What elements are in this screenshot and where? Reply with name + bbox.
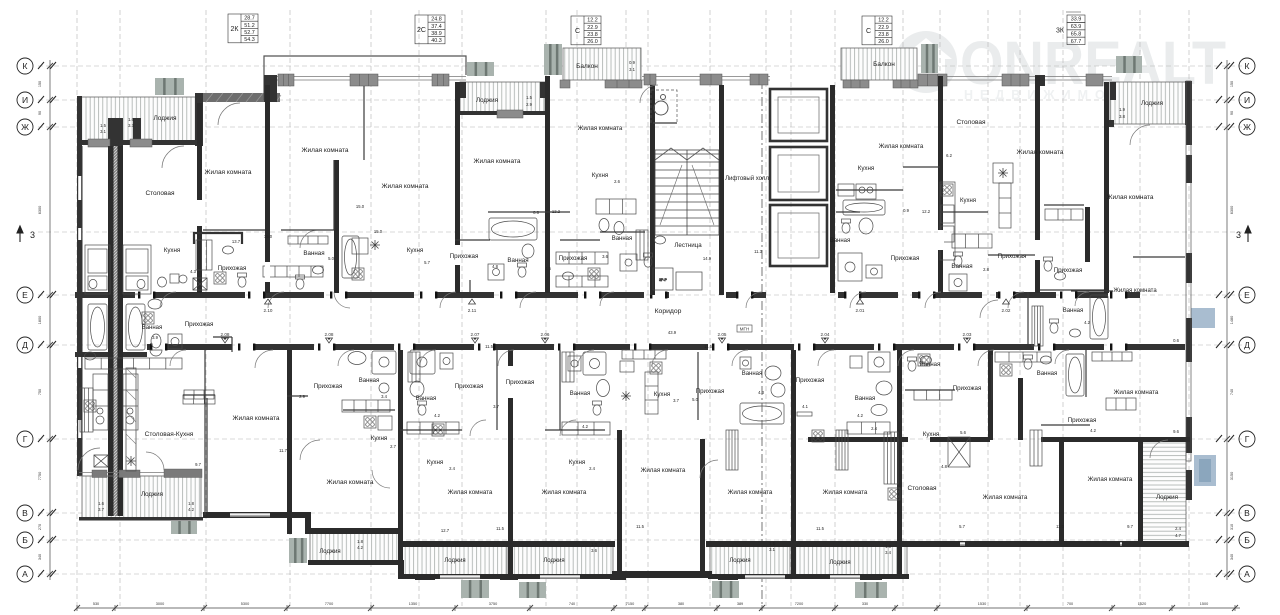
area table 2C	[415, 15, 445, 44]
svg-text:63.9: 63.9	[1071, 24, 1082, 30]
svg-text:Прихожая: Прихожая	[796, 377, 825, 384]
svg-text:0.9: 0.9	[629, 60, 635, 65]
svg-text:Д: Д	[1244, 340, 1250, 350]
svg-text:Лоджия: Лоджия	[476, 97, 498, 104]
loggia D hatch strips	[710, 545, 790, 576]
svg-text:9.7: 9.7	[195, 462, 201, 467]
svg-text:Жилая комната: Жилая комната	[983, 494, 1028, 501]
section line	[761, 80, 763, 610]
svg-text:1.9: 1.9	[1119, 107, 1125, 112]
svg-text:3.7: 3.7	[493, 404, 499, 409]
loggia B hatch	[460, 82, 545, 114]
svg-text:С: С	[866, 28, 871, 35]
svg-text:150: 150	[1230, 81, 1234, 87]
svg-text:15.0: 15.0	[264, 234, 273, 239]
loggia top-left hatch	[79, 97, 197, 144]
svg-text:Ж: Ж	[21, 122, 29, 132]
svg-text:Жилая комната: Жилая комната	[879, 143, 924, 150]
svg-text:9.6: 9.6	[1173, 429, 1179, 434]
svg-text:3.8: 3.8	[1119, 114, 1125, 119]
svg-text:1.5: 1.5	[769, 541, 775, 546]
svg-text:Прихожая: Прихожая	[450, 253, 479, 260]
watermark logo	[895, 29, 1226, 102]
svg-text:2.06: 2.06	[541, 332, 550, 337]
svg-text:Жилая комната: Жилая комната	[474, 158, 521, 165]
svg-text:5.7: 5.7	[424, 260, 430, 265]
svg-text:Кухня: Кухня	[923, 431, 940, 438]
svg-text:Жилая комната: Жилая комната	[578, 125, 623, 132]
svg-text:9.7: 9.7	[1127, 524, 1133, 529]
svg-text:3: 3	[1236, 230, 1241, 240]
svg-text:Жилая комната: Жилая комната	[641, 467, 686, 474]
svg-text:Ванная: Ванная	[416, 396, 437, 402]
svg-text:12.2: 12.2	[552, 209, 561, 214]
svg-text:4.5: 4.5	[545, 266, 551, 271]
svg-text:2.04: 2.04	[821, 332, 830, 337]
svg-text:310: 310	[1230, 524, 1234, 530]
svg-text:12.2: 12.2	[587, 18, 598, 24]
svg-text:Кухня: Кухня	[960, 198, 976, 204]
svg-text:1800: 1800	[38, 316, 42, 324]
svg-text:Столовая: Столовая	[956, 119, 986, 126]
svg-text:Балкон: Балкон	[576, 63, 598, 70]
svg-text:Ванная: Ванная	[612, 236, 633, 242]
svg-text:270: 270	[38, 524, 42, 530]
svg-text:А: А	[22, 569, 28, 579]
svg-text:340: 340	[38, 554, 42, 560]
svg-text:2.4: 2.4	[449, 466, 455, 471]
svg-text:Ванная: Ванная	[830, 238, 851, 244]
svg-text:Столовая: Столовая	[907, 485, 937, 492]
svg-text:Лоджия: Лоджия	[1156, 494, 1178, 501]
svg-text:3.4: 3.4	[885, 550, 891, 555]
area table C2	[862, 16, 892, 45]
svg-text:28.7: 28.7	[244, 16, 255, 22]
svg-text:2.9: 2.9	[299, 394, 305, 399]
svg-text:А: А	[1244, 569, 1250, 579]
area table 2K	[228, 14, 258, 43]
svg-text:Лоджия: Лоджия	[153, 115, 177, 122]
svg-text:Ванная: Ванная	[359, 378, 380, 384]
svg-text:Лестница: Лестница	[674, 242, 702, 249]
walls main	[75, 292, 1185, 357]
svg-text:Жилая комната: Жилая комната	[205, 169, 252, 176]
loggia bottom-left hatch	[82, 476, 201, 518]
loggia bottom-right hatch	[1142, 438, 1186, 543]
svg-text:2.01: 2.01	[856, 308, 865, 313]
svg-text:23.8: 23.8	[587, 32, 598, 38]
svg-text:Ванная: Ванная	[920, 362, 941, 368]
svg-text:2.10: 2.10	[264, 308, 273, 313]
svg-text:Ванная: Ванная	[855, 396, 876, 402]
svg-text:Жилая комната: Жилая комната	[233, 415, 280, 422]
svg-text:2.11: 2.11	[468, 308, 477, 313]
bottom dimension line	[74, 605, 1240, 611]
svg-text:37.4: 37.4	[431, 24, 442, 30]
svg-text:Г: Г	[1245, 434, 1250, 444]
svg-text:14.9: 14.9	[703, 256, 712, 261]
svg-text:389: 389	[737, 602, 743, 606]
svg-text:Ванная: Ванная	[303, 250, 324, 257]
svg-text:Прихожая: Прихожая	[891, 255, 920, 262]
svg-text:Коридор: Коридор	[655, 308, 682, 315]
svg-text:2.4: 2.4	[1175, 526, 1181, 531]
svg-text:3.4: 3.4	[381, 394, 387, 399]
svg-text:2.08: 2.08	[221, 332, 230, 337]
svg-text:1480: 1480	[1230, 316, 1234, 324]
svg-text:1350: 1350	[409, 602, 417, 606]
svg-text:65.8: 65.8	[1071, 31, 1082, 37]
svg-text:Балкон: Балкон	[873, 61, 895, 68]
svg-text:К: К	[23, 61, 28, 71]
svg-text:Прихожая: Прихожая	[559, 255, 588, 262]
svg-text:6.2: 6.2	[946, 153, 952, 158]
svg-text:11.5: 11.5	[485, 344, 494, 349]
svg-text:Столовая: Столовая	[145, 190, 175, 197]
svg-text:Ж: Ж	[1243, 122, 1251, 132]
svg-text:4.1: 4.1	[802, 404, 808, 409]
svg-text:7750: 7750	[38, 472, 42, 480]
svg-text:340: 340	[1230, 554, 1234, 560]
svg-text:67.7: 67.7	[1071, 39, 1082, 45]
svg-text:Кухня: Кухня	[407, 247, 424, 254]
svg-text:750: 750	[38, 389, 42, 395]
svg-text:2.08: 2.08	[325, 332, 334, 337]
svg-text:4.2: 4.2	[1090, 428, 1096, 433]
svg-text:Жилая комната: Жилая комната	[728, 489, 773, 496]
svg-text:4.2: 4.2	[434, 413, 440, 418]
svg-text:3.3: 3.3	[128, 123, 134, 128]
room labels	[141, 61, 1178, 566]
svg-text:740: 740	[569, 602, 575, 606]
svg-text:4.7: 4.7	[1175, 533, 1181, 538]
door arcs	[78, 448, 100, 470]
svg-text:4.2: 4.2	[188, 507, 194, 512]
svg-text:23.8: 23.8	[878, 32, 889, 38]
svg-text:В: В	[1244, 508, 1250, 518]
svg-text:11.3: 11.3	[754, 249, 763, 254]
svg-text:Ванная: Ванная	[1037, 371, 1058, 377]
svg-text:4.3: 4.3	[758, 390, 764, 395]
side dimension lines	[47, 60, 1230, 580]
svg-text:2.9: 2.9	[526, 102, 532, 107]
svg-text:4.8: 4.8	[941, 464, 947, 469]
svg-text:В: В	[22, 508, 28, 518]
svg-text:К: К	[1245, 61, 1250, 71]
svg-text:1.6: 1.6	[98, 501, 104, 506]
svg-text:Ванная: Ванная	[142, 325, 163, 331]
svg-text:1.6: 1.6	[128, 117, 134, 122]
section marker 3	[17, 226, 1251, 242]
fixtures	[80, 182, 1136, 500]
svg-text:5.0: 5.0	[692, 397, 698, 402]
svg-text:Ванная: Ванная	[1063, 308, 1084, 314]
svg-text:Прихожая: Прихожая	[1054, 267, 1083, 274]
svg-text:2.4: 2.4	[589, 466, 595, 471]
svg-text:Кухня: Кухня	[569, 459, 586, 466]
svg-text:12.2: 12.2	[922, 209, 931, 214]
svg-text:11.5: 11.5	[704, 344, 713, 349]
svg-text:7200: 7200	[795, 602, 803, 606]
svg-text:2.6: 2.6	[614, 179, 620, 184]
svg-text:Прихожая: Прихожая	[998, 253, 1027, 260]
svg-text:2.07: 2.07	[471, 332, 480, 337]
blue slabs right	[1191, 308, 1215, 328]
svg-text:3150: 3150	[1230, 472, 1234, 480]
svg-text:Е: Е	[1244, 290, 1250, 300]
kitchen box with shelf right	[993, 163, 1083, 228]
svg-text:Прихожая: Прихожая	[455, 383, 484, 390]
svg-text:Прихожая: Прихожая	[314, 383, 343, 390]
vent shaft column	[126, 368, 136, 471]
svg-text:Лоджия: Лоджия	[319, 549, 340, 555]
svg-text:Кухня: Кухня	[164, 247, 181, 254]
svg-text:26.0: 26.0	[878, 39, 889, 45]
svg-text:4.8: 4.8	[492, 264, 498, 269]
svg-text:4.2: 4.2	[857, 413, 863, 418]
svg-text:12.2: 12.2	[878, 18, 889, 24]
svg-text:Жилая комната: Жилая комната	[327, 479, 374, 486]
svg-text:Прихожая: Прихожая	[1068, 417, 1097, 424]
svg-text:2.4: 2.4	[871, 426, 877, 431]
svg-text:3.6: 3.6	[602, 254, 608, 259]
svg-text:Жилая комната: Жилая комната	[823, 489, 868, 496]
svg-text:2К: 2К	[231, 26, 240, 33]
svg-text:11.0: 11.0	[1056, 524, 1065, 529]
svg-text:0.6: 0.6	[533, 210, 539, 215]
svg-text:Е: Е	[22, 290, 28, 300]
svg-text:Лоджия: Лоджия	[444, 558, 465, 564]
loggia top-right hatch	[1110, 82, 1189, 124]
svg-text:3.9: 3.9	[152, 335, 158, 340]
svg-text:12.7: 12.7	[441, 528, 450, 533]
svg-text:530: 530	[93, 602, 99, 606]
svg-text:700: 700	[1067, 602, 1073, 606]
level markers	[221, 299, 1011, 343]
svg-text:3Р-Р: 3Р-Р	[659, 278, 667, 282]
interior thin walls	[183, 86, 1185, 515]
svg-text:Прихожая: Прихожая	[185, 321, 214, 328]
svg-text:Ванная: Ванная	[507, 257, 528, 264]
svg-text:Прихожая: Прихожая	[506, 379, 535, 386]
svg-text:330: 330	[862, 602, 868, 606]
svg-text:22.9: 22.9	[878, 25, 889, 31]
svg-text:Кухня: Кухня	[371, 435, 388, 442]
svg-text:90: 90	[38, 111, 42, 115]
svg-text:43.9: 43.9	[668, 330, 677, 335]
svg-text:Прихожая: Прихожая	[953, 385, 982, 392]
svg-text:4.3: 4.3	[190, 269, 196, 274]
svg-text:3.1: 3.1	[100, 129, 106, 134]
svg-text:МГН: МГН	[740, 327, 749, 332]
MGN corridor box	[737, 325, 752, 332]
svg-text:3750: 3750	[489, 602, 497, 606]
svg-text:Жилая комната: Жилая комната	[448, 489, 493, 496]
svg-text:22.9: 22.9	[587, 25, 598, 31]
svg-text:Кухня: Кухня	[592, 172, 609, 179]
svg-text:2С: 2С	[417, 27, 426, 34]
svg-text:Г: Г	[23, 434, 28, 444]
svg-text:Ванная: Ванная	[570, 391, 591, 397]
svg-text:Кухня: Кухня	[654, 391, 671, 398]
svg-text:Ванная: Ванная	[951, 263, 972, 270]
svg-text:7150: 7150	[626, 602, 634, 606]
svg-text:Кухня: Кухня	[858, 165, 875, 172]
svg-text:0.9: 0.9	[903, 208, 909, 213]
MGN zone	[651, 90, 677, 123]
svg-text:2.05: 2.05	[718, 332, 727, 337]
svg-text:13.7: 13.7	[232, 239, 241, 244]
svg-text:Жилая комната: Жилая комната	[382, 183, 429, 190]
svg-text:Жилая комната: Жилая комната	[302, 147, 349, 154]
svg-text:3: 3	[30, 230, 35, 240]
svg-text:2.7: 2.7	[390, 444, 396, 449]
svg-text:Жилая комната: Жилая комната	[542, 489, 587, 496]
svg-text:11.5: 11.5	[816, 526, 825, 531]
svg-text:3.7: 3.7	[673, 398, 679, 403]
svg-text:5.7: 5.7	[959, 524, 965, 529]
svg-text:740: 740	[1230, 389, 1234, 395]
svg-text:Прихожая: Прихожая	[696, 388, 725, 395]
svg-text:3.7: 3.7	[98, 507, 104, 512]
svg-text:Жилая комната: Жилая комната	[1114, 389, 1159, 396]
svg-text:150: 150	[38, 81, 42, 87]
svg-text:Лоджия: Лоджия	[1141, 100, 1163, 107]
svg-text:15.0: 15.0	[374, 229, 383, 234]
svg-text:Прихожая: Прихожая	[218, 265, 247, 272]
svg-text:Лоджия: Лоджия	[543, 558, 564, 564]
svg-text:Столовая-Кухня: Столовая-Кухня	[145, 431, 194, 438]
svg-text:Д: Д	[22, 340, 28, 350]
svg-text:1.5: 1.5	[100, 123, 106, 128]
stairs	[655, 148, 719, 235]
storage under stairs	[653, 268, 702, 290]
svg-text:Жилая комната: Жилая комната	[1017, 149, 1064, 156]
svg-text:26.0: 26.0	[587, 39, 598, 45]
elevator shafts	[770, 89, 827, 266]
svg-text:1.8: 1.8	[357, 539, 363, 544]
svg-text:1530: 1530	[978, 602, 986, 606]
svg-text:3000: 3000	[156, 602, 164, 606]
svg-text:380: 380	[678, 602, 684, 606]
svg-text:11.7: 11.7	[279, 448, 288, 453]
svg-text:И: И	[1244, 95, 1250, 105]
svg-text:54.3: 54.3	[244, 37, 255, 43]
svg-text:1500: 1500	[1200, 602, 1208, 606]
svg-text:5.0: 5.0	[328, 256, 334, 261]
svg-text:51.2: 51.2	[244, 23, 255, 29]
loggia C hatch strips	[401, 545, 507, 576]
svg-text:40.3: 40.3	[431, 38, 442, 44]
walls	[77, 56, 1192, 500]
svg-text:Б: Б	[1244, 535, 1250, 545]
svg-text:Лоджия: Лоджия	[729, 558, 750, 564]
svg-text:1.8: 1.8	[885, 544, 891, 549]
svg-text:3.1: 3.1	[769, 547, 775, 552]
svg-text:7700: 7700	[325, 602, 333, 606]
svg-text:6300: 6300	[1230, 206, 1234, 214]
svg-text:33.9: 33.9	[1071, 17, 1082, 23]
svg-text:1.0: 1.0	[591, 542, 597, 547]
area table C1	[571, 16, 601, 45]
svg-text:11.5: 11.5	[636, 524, 645, 529]
balcony A hatch	[563, 48, 641, 80]
svg-text:11.5: 11.5	[496, 526, 505, 531]
svg-text:5300: 5300	[241, 602, 249, 606]
svg-text:Кухня: Кухня	[427, 459, 444, 466]
balcony slabs	[155, 44, 1142, 598]
svg-text:Б: Б	[22, 535, 28, 545]
svg-text:4.2: 4.2	[582, 424, 588, 429]
svg-text:Лоджия: Лоджия	[141, 491, 163, 498]
loggia F hatch	[310, 532, 399, 562]
svg-text:1.5: 1.5	[526, 95, 532, 100]
svg-text:6300: 6300	[38, 206, 42, 214]
svg-text:Ванная: Ванная	[742, 371, 763, 377]
svg-text:52.7: 52.7	[244, 30, 255, 36]
svg-text:0.6: 0.6	[1173, 338, 1179, 343]
svg-text:4.2: 4.2	[357, 545, 363, 550]
svg-text:3К: 3К	[1056, 27, 1065, 34]
svg-text:1520: 1520	[1138, 602, 1146, 606]
svg-text:2.8: 2.8	[983, 267, 989, 272]
svg-text:24.8: 24.8	[431, 17, 442, 23]
svg-text:3.6: 3.6	[591, 548, 597, 553]
svg-text:Жилая комната: Жилая комната	[1107, 194, 1154, 201]
svg-text:15.0: 15.0	[356, 204, 365, 209]
svg-text:Лоджия: Лоджия	[829, 560, 850, 566]
svg-text:Жилая комната: Жилая комната	[1113, 288, 1157, 294]
balcony B hatch	[841, 48, 917, 80]
svg-text:Жилая комната: Жилая комната	[1088, 476, 1133, 483]
svg-text:5.6: 5.6	[960, 430, 966, 435]
svg-text:Лифтовый холл: Лифтовый холл	[725, 175, 769, 182]
svg-text:90: 90	[1230, 111, 1234, 115]
svg-text:38.9: 38.9	[431, 31, 442, 37]
svg-text:2.03: 2.03	[963, 332, 972, 337]
svg-text:2.02: 2.02	[1002, 308, 1011, 313]
svg-text:С: С	[575, 28, 580, 35]
svg-text:И: И	[22, 95, 28, 105]
svg-text:4.2: 4.2	[1084, 320, 1090, 325]
svg-text:1.8: 1.8	[188, 501, 194, 506]
dim numbers	[98, 60, 1181, 555]
svg-text:3.1: 3.1	[629, 67, 635, 72]
